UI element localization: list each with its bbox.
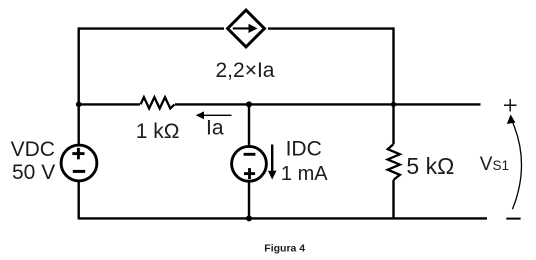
wire middle left segment [79, 103, 140, 105]
wire left vertical upper [77, 27, 79, 145]
resistor R1 1kΩ [141, 97, 175, 108]
dependent current source B1 (2.2×Ia) [228, 10, 265, 47]
wire top-right segment [268, 27, 394, 29]
minus terminal of Vs1 [506, 218, 520, 220]
node dot B (middle) [246, 101, 252, 107]
plus terminal of Vs1 [504, 99, 517, 111]
svg-text:VDC: VDC [11, 138, 55, 161]
node dot A (left) [76, 102, 82, 108]
wire right vertical lower [392, 180, 394, 220]
wire IDC upper [248, 104, 250, 146]
svg-text:VS1: VS1 [480, 154, 509, 175]
voltage source U1 VDC 50V [61, 145, 97, 181]
svg-text:1 kΩ: 1 kΩ [136, 120, 180, 143]
wire IDC lower [248, 182, 250, 220]
svg-text:IDC: IDC [286, 138, 322, 161]
svg-text:Figura 4: Figura 4 [264, 242, 305, 254]
wire top-left segment [79, 27, 224, 29]
wire left vertical lower [77, 181, 79, 219]
svg-text:2,2×Ia: 2,2×Ia [216, 59, 275, 82]
voltage reference arrow Vs1 [507, 114, 522, 209]
current source IDC 1mA [232, 146, 267, 181]
svg-text:Ia: Ia [206, 116, 224, 139]
wire bottom [79, 217, 487, 219]
wire middle right segment [175, 103, 481, 105]
node dot D (bottom) [246, 215, 252, 221]
IDC current direction arrow [268, 145, 277, 180]
current arrow Ia [196, 111, 232, 119]
node dot C (right) [391, 102, 396, 107]
svg-text:50 V: 50 V [12, 161, 55, 184]
svg-text:5 kΩ: 5 kΩ [406, 153, 454, 179]
resistor R2 5kΩ [388, 144, 400, 180]
wire right vertical upper [392, 27, 394, 144]
svg-text:1 mA: 1 mA [281, 163, 328, 185]
